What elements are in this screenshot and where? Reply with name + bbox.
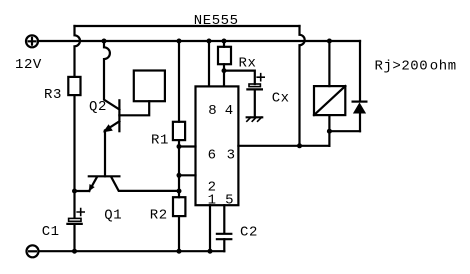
svg-text:Q1: Q1 [104,208,122,224]
svg-text:1: 1 [208,193,217,209]
svg-text:Rj>200: Rj>200 [375,59,429,75]
svg-text:R1: R1 [151,133,169,149]
svg-text:3: 3 [227,147,236,163]
svg-text:ohm: ohm [430,59,457,75]
svg-text:C2: C2 [240,225,258,241]
svg-text:12V: 12V [15,57,42,73]
svg-text:5: 5 [225,193,234,209]
svg-text:R3: R3 [44,87,62,103]
svg-text:6: 6 [208,147,217,163]
svg-text:R2: R2 [150,208,168,224]
svg-text:NE555: NE555 [194,13,239,29]
svg-text:Q2: Q2 [89,99,107,115]
svg-text:Cx: Cx [272,91,290,107]
svg-text:Rx: Rx [239,56,257,72]
svg-text:8: 8 [208,103,217,119]
svg-text:C1: C1 [42,224,60,240]
svg-text:4: 4 [225,103,234,119]
